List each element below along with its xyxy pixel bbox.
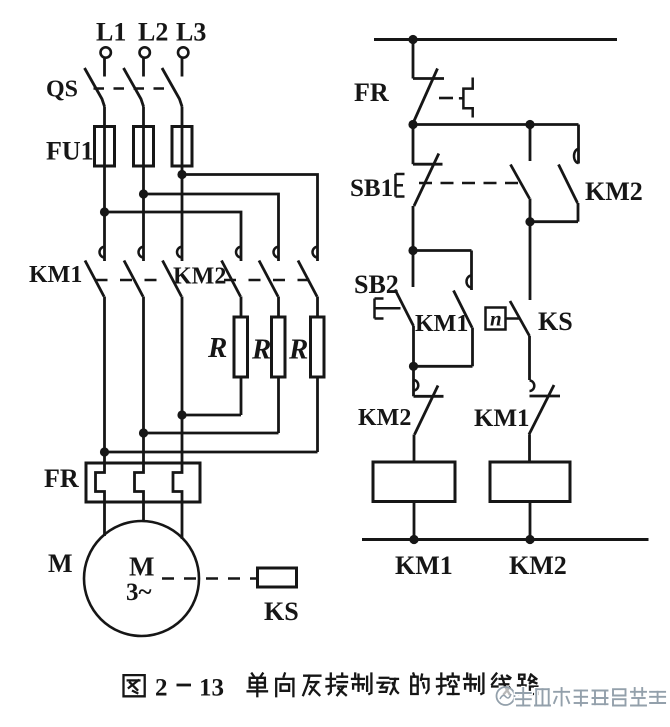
terminal L2: [140, 47, 150, 76]
watermark logo and text: [497, 687, 666, 706]
wire KM2 aux to KS branch: [530, 220, 578, 223]
contactor KM1 coil bottom label: [509, 551, 567, 580]
node R1-phase3 junction: [177, 410, 186, 419]
node L3 label: [176, 18, 206, 47]
contactor KM2 main contact pole 1: [222, 246, 242, 317]
pushbutton SB1 label: [350, 175, 393, 202]
speed relay KS label: [264, 597, 299, 626]
contactor KM1 label: [29, 262, 82, 288]
thermal relay FR heater 2: [135, 463, 144, 502]
fuse FU1 pole 3: [172, 127, 192, 247]
node R2-phase2 junction: [139, 428, 148, 437]
resistor R3: [311, 317, 325, 452]
pushbutton SB2 NO contact: [395, 251, 414, 367]
contactor KM1 NC interlock contact: [529, 381, 560, 463]
svg-text:M: M: [129, 552, 154, 582]
node KM1 coil bottom junction: [525, 535, 534, 544]
wire phase2 to KM2 pole2: [144, 194, 279, 246]
thermal relay FR contact linkage dash: [439, 97, 458, 100]
contactor KM1 NO auxiliary contact: [454, 251, 473, 367]
resistor R3 label: [288, 334, 308, 366]
contactor KM1 coil: [490, 462, 570, 540]
switch QS pole 2 blade: [124, 68, 144, 127]
svg-text:KM1: KM1: [474, 405, 530, 432]
node C junction: [408, 246, 417, 255]
thermal relay FR label: [44, 464, 79, 493]
svg-text:KM2: KM2: [173, 264, 226, 290]
pushbutton SB1 linkage dashed line: [419, 182, 521, 185]
svg-text:L1: L1: [96, 18, 126, 47]
fuse FU1 pole 2: [134, 127, 154, 247]
switch QS pole 1 blade: [85, 68, 105, 127]
contactor KM1 main contact pole 2: [124, 246, 144, 463]
svg-text:SB1: SB1: [350, 175, 393, 202]
terminal L1: [101, 47, 111, 76]
wire bottom bus: [362, 538, 649, 541]
wire node B down: [529, 222, 532, 300]
thermal relay FR actuator symbol: [459, 78, 473, 118]
wire phase3 to KM2 pole3: [182, 175, 318, 247]
node phase3 junction: [177, 170, 186, 179]
speed relay linkage dashed line: [162, 577, 256, 580]
contactor main contacts linkage dashed line: [96, 279, 311, 282]
contactor KM1 auxiliary mid label: [415, 311, 468, 337]
wire R2 to phase2: [144, 432, 279, 435]
thermal relay FR heater 3: [173, 463, 182, 502]
wire R1 to phase3: [182, 414, 241, 417]
pushbutton SB2 label: [354, 270, 399, 299]
pushbutton SB1 actuator E: [396, 174, 405, 197]
svg-text:KS: KS: [264, 597, 299, 626]
svg-text:KM2: KM2: [358, 405, 411, 431]
wire node C to KM1 selflock: [413, 249, 472, 252]
svg-text:QS: QS: [46, 77, 78, 103]
contactor KM2 auxiliary label: [585, 177, 643, 206]
svg-text:FR: FR: [44, 464, 79, 493]
svg-text:KM2: KM2: [509, 551, 567, 580]
wire KM1 selflock bottom: [414, 365, 473, 368]
node D junction: [409, 362, 418, 371]
motor M circle: [84, 521, 199, 636]
svg-text:KM1: KM1: [395, 551, 453, 580]
svg-text:L3: L3: [176, 18, 206, 47]
pushbutton SB1 NO contact: [511, 125, 531, 222]
speed relay KS box: [258, 568, 297, 587]
resistor R1 label: [207, 332, 227, 364]
node phase2 junction: [139, 189, 148, 198]
thermal relay FR contact label: [354, 78, 389, 107]
contactor KM2 NO auxiliary contact: [559, 125, 579, 222]
wire node A to KM2 branch: [413, 123, 579, 126]
contactor KM2 label: [173, 264, 226, 290]
wire FR to motor phase3: [181, 502, 184, 539]
wire phase1 to KM2 pole1: [105, 212, 242, 246]
node A junction: [408, 120, 417, 129]
node top bus junction: [408, 35, 417, 44]
svg-text:FU1: FU1: [46, 137, 94, 166]
wire FR to motor phase2: [142, 502, 145, 522]
terminal L3: [178, 47, 188, 76]
svg-text:SB2: SB2: [354, 270, 399, 299]
contactor KM2 interlock label: [358, 405, 411, 431]
speed relay n box: [486, 307, 520, 331]
caption figure number: [124, 675, 225, 702]
contactor KM1 interlock label: [474, 405, 530, 432]
wire FR to motor phase1: [103, 502, 106, 536]
motor 3~ text: [126, 579, 152, 606]
svg-text:FR: FR: [354, 78, 389, 107]
wire R3 to phase1: [105, 451, 318, 454]
contactor KM1 main contact pole 1: [85, 246, 105, 463]
svg-text:n: n: [490, 307, 502, 331]
resistor R2: [272, 317, 286, 433]
svg-text:R: R: [251, 334, 271, 366]
motor M text: [129, 552, 154, 582]
thermal relay FR box: [86, 463, 200, 502]
contactor KM2 main contact pole 2: [259, 246, 279, 317]
speed relay KS contact label: [538, 307, 573, 336]
node KM2 coil bottom junction: [409, 535, 418, 544]
node L1 label: [96, 18, 126, 47]
switch QS label: [46, 77, 78, 103]
node R3-phase1 junction: [100, 447, 109, 456]
svg-text:M: M: [48, 549, 73, 578]
node L2 label: [138, 18, 168, 47]
fuse FU1 pole 1: [95, 127, 115, 247]
contactor KM2 coil bottom label: [395, 551, 453, 580]
contactor KM1 main contact pole 3: [163, 246, 183, 463]
pushbutton SB2 actuator E: [375, 299, 401, 319]
svg-text:3~: 3~: [126, 579, 152, 606]
svg-text:KM2: KM2: [585, 177, 643, 206]
svg-text:13: 13: [199, 675, 224, 702]
svg-text:KS: KS: [538, 307, 573, 336]
node A2 junction: [525, 120, 534, 129]
svg-text:R: R: [207, 332, 227, 364]
thermal relay FR heater 1: [96, 463, 105, 502]
pushbutton SB1 NC contact: [413, 125, 443, 251]
switch QS linkage dashed line: [94, 87, 170, 90]
node B junction: [525, 217, 534, 226]
contactor KM2 main contact pole 3: [298, 246, 318, 317]
svg-text:KM1: KM1: [415, 311, 468, 337]
speed relay KS NO contact: [510, 301, 530, 380]
caption title glyphs: [248, 674, 538, 697]
node phase1 junction: [100, 207, 109, 216]
switch QS pole 3 blade: [162, 68, 182, 127]
contactor KM2 coil: [373, 462, 455, 540]
motor M label: [48, 549, 73, 578]
svg-text:L2: L2: [138, 18, 168, 47]
resistor R2 label: [251, 334, 271, 366]
svg-text:R: R: [288, 334, 308, 366]
resistor R1: [234, 317, 248, 415]
wire top bus: [374, 38, 617, 41]
fuse FU1 label: [46, 137, 94, 166]
svg-text:2: 2: [155, 675, 168, 702]
thermal relay FR NC contact: [413, 40, 444, 125]
contactor KM2 NC interlock contact: [414, 366, 444, 462]
svg-text:KM1: KM1: [29, 262, 82, 288]
